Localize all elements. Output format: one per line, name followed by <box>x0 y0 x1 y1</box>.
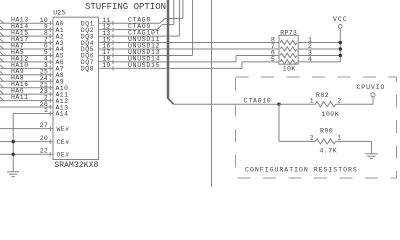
resistor R90 <box>279 104 372 154</box>
svg-text:DQ8: DQ8 <box>81 66 94 73</box>
svg-text:HA11: HA11 <box>11 94 29 101</box>
svg-text:R82: R82 <box>316 92 329 99</box>
resistor R82 <box>279 92 373 118</box>
junction CE# <box>12 140 15 143</box>
resistor pack RP73 <box>271 29 340 72</box>
svg-text:CPUVIO: CPUVIO <box>357 84 386 91</box>
wire HA14 pin 9 (A1) <box>0 23 64 34</box>
wire net pin 26 (A13) <box>0 101 68 112</box>
svg-text:2: 2 <box>310 135 314 142</box>
junction RP73 pin3 <box>339 54 342 57</box>
svg-text:A14: A14 <box>56 111 69 118</box>
svg-text:1: 1 <box>338 135 342 142</box>
ground (R90) <box>365 141 377 158</box>
wire net pin 1 (A14) <box>13 107 68 118</box>
net CTAG8 pin 11 (DQ1) <box>81 0 183 27</box>
net CTAG10T pin 13 (DQ3) <box>81 0 180 40</box>
wire HA15 pin 8 (A2) <box>0 30 64 41</box>
svg-text:RP73: RP73 <box>280 29 297 36</box>
svg-text:CTAG10: CTAG10 <box>244 97 272 104</box>
svg-text:CE#: CE# <box>57 139 70 146</box>
wire HA5 pin 5 (A5) <box>0 49 64 60</box>
wire ground tie vertical <box>12 114 14 172</box>
svg-text:1: 1 <box>310 98 314 105</box>
wire OE# pin 22 <box>0 148 69 159</box>
svg-text:27: 27 <box>40 122 48 129</box>
svg-text:1: 1 <box>44 107 48 114</box>
svg-text:STUFFING OPTION: STUFFING OPTION <box>85 2 166 12</box>
junction RP73 pin1 <box>339 41 342 44</box>
net UNUSD15 pin 19 (DQ8) <box>81 62 279 73</box>
power CPUVIO <box>357 84 386 104</box>
wire CE# pin 20 <box>0 135 69 146</box>
svg-text:CONFIGURATION RESISTORS: CONFIGURATION RESISTORS <box>245 167 358 174</box>
junction CTAG10 <box>277 103 280 106</box>
wire HA6 pin 23 (A11) <box>0 88 68 99</box>
wire HA17 pin 7 (A3) <box>0 36 64 47</box>
sram U25 <box>53 17 99 159</box>
junction OE# <box>12 153 15 156</box>
wire HA8 pin 24 (A9) <box>0 75 64 86</box>
svg-text:U25: U25 <box>53 10 65 17</box>
wire HA10 pin 3 (A7) <box>0 62 64 73</box>
svg-text:OE#: OE# <box>57 152 70 159</box>
net CTAG10 <box>174 97 282 104</box>
svg-text:2: 2 <box>338 98 342 105</box>
svg-text:20: 20 <box>40 135 48 142</box>
svg-text:5: 5 <box>271 56 275 63</box>
net UNUSD12 pin 16 (DQ5) <box>81 42 279 53</box>
wire HA11 pin 2 (A12) <box>0 94 68 105</box>
svg-text:SRAM32KX8: SRAM32KX8 <box>54 161 98 170</box>
svg-text:VCC: VCC <box>333 16 348 23</box>
dashed box CONFIGURATION RESISTORS <box>236 77 397 178</box>
net UNUSD13 pin 17 (DQ6) <box>81 0 193 60</box>
net CTAG9 pin 12 (DQ2) <box>81 0 174 34</box>
junction RP73 pin2 <box>339 47 342 50</box>
wire HA7 pin 6 (A4) <box>0 42 64 53</box>
net UNUSD14 pin 18 (DQ7) <box>81 55 279 66</box>
long vertical wire <box>211 0 213 187</box>
wire HA9 pin 25 (A8) <box>0 68 64 79</box>
wire HA13 pin 10 (A0) <box>0 17 64 28</box>
svg-text:10K: 10K <box>283 65 296 72</box>
net UNUSD11 pin 15 (DQ4) <box>81 36 279 47</box>
bus (thick) <box>167 0 173 104</box>
svg-text:UNUSD15: UNUSD15 <box>128 62 160 69</box>
svg-text:22: 22 <box>40 148 48 155</box>
svg-text:100K: 100K <box>322 111 340 118</box>
svg-text:4: 4 <box>308 56 312 63</box>
wire WE# pin 27 <box>0 122 69 133</box>
ground <box>7 172 19 177</box>
wire HA12 pin 4 (A6) <box>0 55 64 66</box>
svg-text:WE#: WE# <box>57 126 70 133</box>
svg-text:4.7K: 4.7K <box>320 148 338 155</box>
power VCC <box>333 16 348 62</box>
wire HA16 pin 21 (A10) <box>0 81 68 92</box>
svg-text:R90: R90 <box>320 127 333 134</box>
